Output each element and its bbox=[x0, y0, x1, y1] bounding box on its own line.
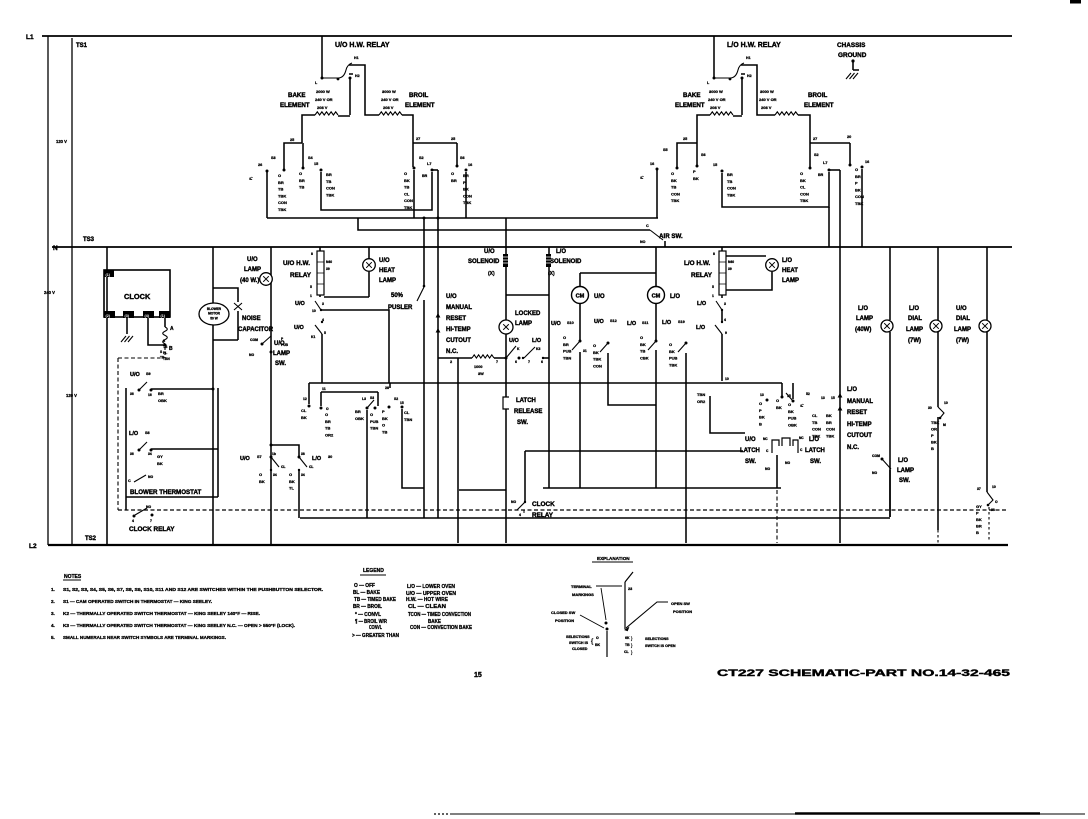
lamp L/O HEAT LAMP bbox=[726, 255, 766, 257]
svg-text:L/O: L/O bbox=[847, 387, 857, 393]
svg-text:6: 6 bbox=[515, 360, 517, 364]
svg-text:208 V: 208 V bbox=[383, 105, 394, 110]
latch switch bracket bbox=[772, 438, 798, 453]
wire left vertical bus 1 bbox=[47, 36, 49, 545]
svg-text:4: 4 bbox=[322, 318, 324, 322]
svg-text:TBK: TBK bbox=[931, 420, 939, 425]
wire pair drop bbox=[298, 470, 300, 518]
lamp U/O HEAT LAMP bbox=[368, 247, 370, 297]
svg-text:30: 30 bbox=[928, 406, 932, 410]
svg-text:U/O: U/O bbox=[130, 372, 141, 378]
svg-text:LAMP: LAMP bbox=[897, 468, 914, 474]
svg-text:MANUAL: MANUAL bbox=[446, 305, 472, 311]
svg-text:LEGEND: LEGEND bbox=[363, 568, 384, 574]
node 16 left-block bbox=[465, 169, 468, 172]
svg-text:12: 12 bbox=[303, 397, 307, 401]
wire far right drop bbox=[861, 169, 863, 247]
resistor broil element left-block bbox=[379, 112, 402, 115]
svg-text:H2: H2 bbox=[747, 74, 752, 78]
svg-text:BR: BR bbox=[451, 178, 457, 183]
top right mark bbox=[1070, 0, 1081, 4]
svg-text:RESET: RESET bbox=[446, 316, 466, 322]
svg-text:208 V: 208 V bbox=[317, 105, 328, 110]
wire bank bake side right bbox=[677, 143, 697, 167]
svg-text:3000 W: 3000 W bbox=[709, 89, 723, 94]
svg-text:(7W): (7W) bbox=[956, 338, 969, 344]
switch latch release bbox=[503, 397, 509, 409]
svg-text:C: C bbox=[128, 479, 131, 483]
svg-text:S9: S9 bbox=[146, 372, 151, 376]
svg-text:CL: CL bbox=[800, 185, 806, 190]
svg-text:TB: TB bbox=[727, 179, 732, 184]
svg-text:OPEN SW: OPEN SW bbox=[671, 601, 690, 606]
svg-text:1: 1 bbox=[712, 294, 714, 298]
svg-text:U/O: U/O bbox=[294, 325, 305, 331]
svg-text:S3: S3 bbox=[271, 156, 276, 160]
svg-text:BK: BK bbox=[157, 461, 163, 466]
svg-text:PUSLER: PUSLER bbox=[388, 305, 413, 311]
svg-text:U/O: U/O bbox=[551, 321, 562, 327]
wire bottom bus of left bank bbox=[267, 217, 658, 219]
wire S19 down bbox=[685, 353, 687, 543]
svg-text:CONVL: CONVL bbox=[369, 625, 382, 631]
svg-text:240 V OR: 240 V OR bbox=[381, 97, 399, 102]
svg-text:7: 7 bbox=[496, 360, 498, 364]
svg-text:H2: H2 bbox=[355, 74, 360, 78]
svg-text:NO: NO bbox=[785, 461, 790, 465]
svg-text:S6: S6 bbox=[460, 156, 465, 160]
svg-text:CLOCK RELAY: CLOCK RELAY bbox=[129, 526, 175, 533]
svg-text:COM: COM bbox=[250, 338, 258, 342]
svg-text:5.: 5. bbox=[51, 635, 55, 640]
svg-text:BR: BR bbox=[976, 524, 982, 529]
svg-text:BK: BK bbox=[693, 176, 699, 181]
svg-text:O — OFF: O — OFF bbox=[354, 583, 375, 589]
svg-text:BLOWER THERMOSTAT: BLOWER THERMOSTAT bbox=[130, 489, 201, 496]
svg-text:15: 15 bbox=[713, 163, 717, 167]
wire K1 drop bbox=[321, 334, 323, 383]
svg-text:O: O bbox=[404, 171, 407, 176]
svg-text:PUB: PUB bbox=[563, 349, 572, 354]
svg-text:CL: CL bbox=[309, 465, 313, 469]
wire vertical x271 bbox=[270, 247, 272, 545]
svg-text:BK: BK bbox=[301, 415, 307, 420]
svg-text:S7: S7 bbox=[257, 455, 262, 459]
svg-text:LATCH: LATCH bbox=[516, 398, 536, 404]
svg-text:NOISE: NOISE bbox=[242, 316, 261, 322]
svg-text:240 V: 240 V bbox=[44, 290, 55, 295]
wire P lead down bbox=[266, 171, 268, 218]
svg-text:GY: GY bbox=[157, 454, 163, 459]
svg-text:L/O: L/O bbox=[662, 320, 672, 326]
wire drop to U/O relay bbox=[321, 36, 323, 78]
wire group f drop bbox=[402, 409, 424, 488]
svg-text:LAMP: LAMP bbox=[954, 327, 971, 333]
svg-text:U/O: U/O bbox=[594, 319, 605, 325]
svg-text:SW.: SW. bbox=[517, 420, 528, 426]
svg-text:NO: NO bbox=[148, 475, 153, 479]
svg-text:TBK: TBK bbox=[800, 198, 808, 203]
svg-text:PUB: PUB bbox=[281, 343, 289, 347]
svg-text:TB: TB bbox=[325, 426, 330, 431]
svg-text:120 V: 120 V bbox=[56, 139, 67, 144]
svg-text:NO: NO bbox=[640, 240, 646, 244]
svg-text:K2 — THERMALLY OPERATED SWITCH: K2 — THERMALLY OPERATED SWITCH THERMOSTA… bbox=[63, 611, 260, 616]
resistor 1000 ohm 3W bbox=[438, 357, 472, 359]
svg-text:K1: K1 bbox=[311, 335, 315, 339]
wire latch dash drop bbox=[776, 490, 778, 543]
svg-text:3000 W: 3000 W bbox=[382, 89, 396, 94]
wire 15 loop to L7 bbox=[321, 172, 432, 210]
svg-text:L/O H.W.: L/O H.W. bbox=[684, 260, 710, 267]
svg-text:NC: NC bbox=[763, 437, 768, 441]
svg-text:CL: CL bbox=[404, 410, 410, 415]
wire bank broil side bbox=[413, 142, 457, 144]
svg-text:S2: S2 bbox=[419, 156, 424, 160]
svg-text:U/O H.W. RELAY: U/O H.W. RELAY bbox=[335, 42, 390, 49]
svg-text:AIR SW.: AIR SW. bbox=[659, 233, 683, 240]
lamp LOCKED LAMP bbox=[499, 320, 513, 334]
svg-text:TB: TB bbox=[671, 185, 676, 190]
svg-text:M: M bbox=[943, 423, 946, 427]
svg-text:HI-TEMP: HI-TEMP bbox=[446, 327, 471, 333]
svg-text:P,: P, bbox=[639, 176, 644, 179]
svg-text:50 W: 50 W bbox=[210, 317, 217, 321]
svg-text:28: 28 bbox=[385, 386, 389, 390]
svg-text:27: 27 bbox=[813, 137, 817, 141]
wire L7 jog right-block bbox=[829, 169, 840, 171]
wire latch release down bbox=[505, 409, 507, 543]
svg-text:BR: BR bbox=[326, 172, 332, 177]
svg-text:H.W. — HOT WIRE: H.W. — HOT WIRE bbox=[406, 597, 449, 603]
svg-text:TBK: TBK bbox=[671, 198, 679, 203]
svg-text:36: 36 bbox=[130, 452, 134, 456]
ground under clock bbox=[126, 318, 128, 334]
svg-text:P: P bbox=[855, 181, 858, 186]
svg-text:SWITCH IS OPEN: SWITCH IS OPEN bbox=[645, 644, 676, 648]
svg-text:L3: L3 bbox=[362, 397, 366, 401]
svg-text:S2: S2 bbox=[394, 397, 398, 401]
wire vertical x107 bbox=[106, 247, 108, 545]
wire mid drop A bbox=[413, 170, 415, 218]
svg-text:S8: S8 bbox=[145, 431, 150, 435]
svg-text:38: 38 bbox=[991, 508, 995, 512]
wire bake left lead bbox=[302, 115, 315, 143]
svg-text:O: O bbox=[299, 171, 302, 176]
svg-text:GY: GY bbox=[976, 504, 982, 509]
svg-text:TBK: TBK bbox=[463, 200, 471, 205]
svg-text:TS3: TS3 bbox=[83, 237, 95, 243]
svg-text:L/O: L/O bbox=[898, 458, 908, 464]
svg-text:SMALL NUMERALS NEAR SWITCH SYM: SMALL NUMERALS NEAR SWITCH SYMBOLS ARE T… bbox=[63, 635, 226, 640]
svg-text:BR: BR bbox=[727, 172, 733, 177]
svg-text:15: 15 bbox=[314, 162, 318, 166]
wire S10 down bbox=[579, 352, 581, 488]
svg-text:OR: OR bbox=[931, 427, 937, 432]
switch group c bbox=[366, 407, 369, 410]
svg-text:BLOWER: BLOWER bbox=[207, 307, 222, 311]
svg-text:P: P bbox=[931, 433, 934, 438]
svg-text:7: 7 bbox=[150, 519, 152, 523]
svg-text:34: 34 bbox=[148, 452, 152, 456]
svg-text:SW.: SW. bbox=[275, 361, 286, 367]
svg-text:TBK: TBK bbox=[404, 205, 412, 210]
svg-text:ELEMENT: ELEMENT bbox=[280, 102, 310, 109]
svg-text:K3 — THERMALLY OPERATED SWITCH: K3 — THERMALLY OPERATED SWITCH THERMOSTA… bbox=[63, 623, 295, 628]
svg-text:52: 52 bbox=[806, 392, 810, 396]
svg-text:240 V OR: 240 V OR bbox=[759, 97, 777, 102]
svg-text:TS1: TS1 bbox=[76, 43, 88, 49]
svg-text:27: 27 bbox=[416, 137, 420, 141]
svg-text:ELEMENT: ELEMENT bbox=[804, 102, 834, 109]
svg-text:TBN: TBN bbox=[404, 417, 412, 422]
clock bbox=[104, 270, 170, 317]
clock coil A-B bbox=[148, 318, 165, 345]
svg-text:CON — CONVECTION BAKE: CON — CONVECTION BAKE bbox=[410, 625, 473, 631]
svg-text:O: O bbox=[325, 412, 328, 417]
svg-text:LAMP: LAMP bbox=[782, 278, 799, 284]
svg-text:O: O bbox=[370, 412, 373, 417]
svg-text:SELECTIONS: SELECTIONS bbox=[645, 637, 669, 641]
svg-text:PUB: PUB bbox=[788, 416, 797, 421]
svg-text:NO: NO bbox=[872, 471, 877, 475]
wire L7 to long drop bbox=[432, 169, 438, 171]
svg-text:U/O: U/O bbox=[594, 294, 605, 300]
svg-text:O: O bbox=[855, 167, 858, 172]
svg-text:K3: K3 bbox=[536, 347, 540, 351]
svg-text:1.: 1. bbox=[51, 587, 55, 592]
svg-text:BR: BR bbox=[818, 173, 824, 177]
svg-text:L/O: L/O bbox=[696, 325, 706, 331]
svg-text:TB: TB bbox=[382, 429, 387, 434]
svg-text:U/O: U/O bbox=[247, 257, 258, 263]
svg-text:CLOCK: CLOCK bbox=[124, 292, 151, 301]
svg-text:HEAT: HEAT bbox=[379, 268, 395, 274]
switch group d bbox=[374, 407, 377, 410]
svg-text:U/O: U/O bbox=[745, 437, 756, 443]
svg-text:3.: 3. bbox=[51, 611, 55, 616]
svg-text:CLOSED SW: CLOSED SW bbox=[551, 610, 575, 615]
wire x458 drop bbox=[457, 358, 459, 543]
svg-text:SW.: SW. bbox=[899, 478, 910, 484]
svg-text:O: O bbox=[759, 401, 762, 406]
svg-text:BK: BK bbox=[931, 440, 937, 445]
svg-text:TCON — TIMED CONVECTION: TCON — TIMED CONVECTION bbox=[408, 612, 471, 618]
svg-text:CUTOUT: CUTOUT bbox=[847, 433, 872, 439]
wire 15 loop right-block bbox=[722, 172, 829, 207]
svg-text:TBK: TBK bbox=[669, 362, 677, 367]
svg-text:CON: CON bbox=[826, 427, 835, 432]
svg-text:TBN: TBN bbox=[163, 357, 170, 361]
svg-text:BK: BK bbox=[595, 643, 601, 647]
svg-text:39: 39 bbox=[326, 267, 330, 271]
svg-text:N.C.: N.C. bbox=[446, 349, 458, 355]
svg-text:TBN: TBN bbox=[370, 426, 378, 431]
svg-text:TB: TB bbox=[404, 185, 409, 190]
svg-text:L/O: L/O bbox=[556, 249, 566, 255]
svg-text:L7: L7 bbox=[823, 161, 827, 165]
svg-text:TB: TB bbox=[812, 420, 817, 425]
svg-text:L/O: L/O bbox=[697, 301, 707, 307]
svg-text:4: 4 bbox=[724, 318, 726, 322]
svg-text:RESET: RESET bbox=[847, 410, 867, 416]
svg-text:34: 34 bbox=[273, 473, 277, 477]
svg-text:L/O: L/O bbox=[858, 306, 868, 312]
wire y451 bus bbox=[525, 450, 743, 452]
svg-text:O: O bbox=[669, 342, 672, 347]
svg-text:MOTOR: MOTOR bbox=[208, 312, 221, 316]
wire 16 drop right-block bbox=[656, 169, 658, 218]
svg-text:L/O: L/O bbox=[782, 258, 792, 264]
svg-text:B: B bbox=[976, 530, 979, 535]
svg-text:OBK: OBK bbox=[158, 398, 167, 403]
svg-text:H1: H1 bbox=[746, 56, 751, 60]
svg-text:U/O: U/O bbox=[446, 294, 457, 300]
svg-text:C: C bbox=[646, 224, 649, 228]
svg-text:H1: H1 bbox=[354, 56, 359, 60]
resistor broil element right-block bbox=[775, 112, 798, 115]
switch group e bbox=[388, 406, 391, 409]
wire long vertical x438 bbox=[437, 170, 439, 518]
svg-text:3: 3 bbox=[322, 302, 324, 306]
svg-text:S11: S11 bbox=[642, 321, 649, 325]
svg-text:TBK: TBK bbox=[593, 357, 601, 362]
svg-text:SW.: SW. bbox=[745, 459, 756, 465]
svg-text:PL: PL bbox=[163, 351, 167, 355]
resistor bake element right-block bbox=[710, 112, 733, 115]
svg-text:TB: TB bbox=[625, 643, 630, 647]
svg-text:OR2: OR2 bbox=[697, 399, 706, 404]
svg-text:DIAL: DIAL bbox=[956, 316, 970, 322]
blower motor bbox=[212, 247, 214, 303]
wire relay out to heat lamp bbox=[320, 295, 369, 297]
svg-text:DIAL: DIAL bbox=[908, 316, 922, 322]
svg-text:BK: BK bbox=[404, 178, 410, 183]
svg-text:(40 W.): (40 W.) bbox=[240, 278, 259, 284]
svg-text:CM: CM bbox=[576, 294, 585, 300]
svg-text:B: B bbox=[169, 346, 173, 352]
wire long vertical x424 bbox=[423, 218, 425, 518]
wire broil right lead bbox=[402, 115, 413, 143]
svg-text:CL: CL bbox=[281, 465, 285, 469]
svg-text:COM: COM bbox=[872, 454, 880, 458]
svg-text:TB: TB bbox=[278, 187, 283, 192]
svg-text:S6: S6 bbox=[701, 153, 706, 157]
wire S11 down bbox=[655, 350, 657, 488]
svg-text:L2: L2 bbox=[29, 543, 37, 550]
switch S6 left-block bbox=[456, 143, 458, 165]
svg-text:BK: BK bbox=[776, 405, 782, 410]
svg-text:LAMP: LAMP bbox=[515, 321, 532, 327]
wire bank broil side right bbox=[810, 142, 850, 144]
wire L2 rail bbox=[48, 544, 1008, 546]
wire heat lamp bottom link bbox=[722, 272, 772, 298]
svg-text:U/O: U/O bbox=[484, 249, 495, 255]
svg-text:NO: NO bbox=[765, 467, 770, 471]
svg-text:3000 W: 3000 W bbox=[760, 89, 774, 94]
wire long vertical x840 bbox=[839, 170, 841, 543]
svg-text:CON: CON bbox=[812, 427, 821, 432]
svg-text:LATCH: LATCH bbox=[740, 448, 760, 454]
svg-text:BL — BAKE: BL — BAKE bbox=[353, 590, 381, 596]
svg-text:5: 5 bbox=[324, 331, 326, 335]
svg-text:6K: 6K bbox=[625, 636, 630, 640]
wire K2 out to x389 drop bbox=[321, 310, 389, 383]
svg-text:POSITION: POSITION bbox=[555, 618, 574, 623]
svg-text:P,: P, bbox=[799, 404, 804, 407]
svg-text:U/O: U/O bbox=[956, 306, 967, 312]
svg-text:BK: BK bbox=[382, 416, 388, 421]
box blower thermostat bbox=[126, 388, 218, 510]
wire vertical x890 bbox=[889, 247, 891, 517]
wire drop to L/O relay bbox=[713, 36, 715, 78]
svg-text:2.: 2. bbox=[51, 599, 55, 604]
switch S2 left-block bbox=[412, 143, 414, 167]
svg-text:3: 3 bbox=[724, 302, 726, 306]
svg-text:CHASSIS: CHASSIS bbox=[837, 42, 866, 49]
svg-text:CON: CON bbox=[671, 191, 680, 196]
svg-text:36: 36 bbox=[130, 392, 134, 396]
svg-text:16: 16 bbox=[468, 163, 472, 167]
svg-text:L1: L1 bbox=[26, 34, 34, 41]
svg-text:31: 31 bbox=[583, 349, 587, 353]
wire dashed branch bbox=[117, 358, 119, 510]
switch air switch bbox=[358, 218, 650, 230]
svg-text:* — CONVL: * — CONVL bbox=[355, 612, 381, 618]
svg-text:O: O bbox=[259, 472, 262, 477]
svg-text:O: O bbox=[593, 343, 596, 348]
svg-text:TL: TL bbox=[289, 486, 294, 491]
svg-text:OBK: OBK bbox=[788, 422, 797, 427]
svg-text:CON: CON bbox=[463, 193, 472, 198]
wire L1 rail bbox=[42, 35, 1012, 37]
svg-text:LAMP: LAMP bbox=[379, 278, 396, 284]
svg-text:B: B bbox=[931, 446, 934, 451]
svg-text:O: O bbox=[326, 407, 329, 411]
svg-text:SOLENOID: SOLENOID bbox=[468, 259, 500, 265]
svg-text:P: P bbox=[382, 409, 385, 414]
svg-text:1000: 1000 bbox=[474, 365, 482, 369]
svg-text:BK: BK bbox=[671, 178, 677, 183]
wire locked lamp down bbox=[505, 334, 507, 397]
svg-text:TBK: TBK bbox=[278, 193, 286, 198]
wire CM drops bbox=[580, 304, 656, 340]
svg-text:U/O H.W.: U/O H.W. bbox=[283, 260, 310, 267]
svg-text:1b: 1b bbox=[272, 452, 276, 456]
svg-text:O: O bbox=[278, 173, 281, 178]
svg-text:RELAY: RELAY bbox=[691, 272, 713, 279]
svg-text:HEAT: HEAT bbox=[782, 268, 798, 274]
svg-text:O: O bbox=[563, 335, 566, 340]
svg-text:4: 4 bbox=[132, 519, 134, 523]
wire broil right lead right-block bbox=[798, 115, 810, 143]
wire resistor row bbox=[494, 357, 506, 359]
node L7 right-block bbox=[828, 169, 831, 172]
wire L/O K1 drop bbox=[721, 310, 723, 381]
svg-text:5: 5 bbox=[712, 285, 714, 289]
svg-text:L/O: L/O bbox=[129, 431, 139, 437]
svg-text:CL: CL bbox=[301, 408, 307, 413]
svg-text:TB: TB bbox=[163, 345, 168, 349]
svg-text:L/O: L/O bbox=[627, 321, 637, 327]
bottom rule bbox=[450, 813, 1085, 815]
wire y383 right end drop bbox=[782, 383, 793, 399]
svg-text:240 V OR: 240 V OR bbox=[315, 97, 333, 102]
svg-text:S12: S12 bbox=[610, 319, 617, 323]
switch group f bbox=[401, 406, 404, 409]
node 11 bar bbox=[309, 383, 378, 406]
svg-text:L/O: L/O bbox=[670, 294, 680, 300]
